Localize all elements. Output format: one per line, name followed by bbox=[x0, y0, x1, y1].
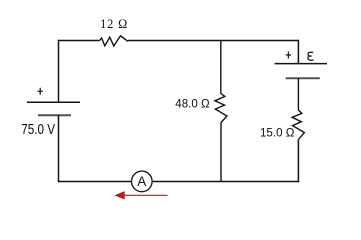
battery EMF positive plate bbox=[275, 63, 328, 65]
EMF epsilon label bbox=[308, 52, 314, 60]
svg-text:75.0 V: 75.0 V bbox=[21, 121, 55, 138]
battery 75.0 V positive plate bbox=[27, 101, 80, 103]
wire top-left segment bbox=[58, 40, 99, 42]
wire right vertical to battery bbox=[297, 40, 299, 64]
wire top-right segment bbox=[128, 40, 299, 42]
current direction arrow (red, pointing left) bbox=[115, 192, 167, 200]
wire bottom bbox=[58, 181, 299, 183]
wire middle branch lower bbox=[220, 123, 222, 182]
resistor 15.0 ohm (R3) zigzag bbox=[292, 110, 304, 139]
battery EMF negative plate bbox=[286, 77, 320, 79]
ammeter A (circle on bottom wire) bbox=[132, 171, 153, 192]
wire middle branch upper bbox=[220, 41, 222, 94]
wire left vertical upper bbox=[58, 40, 60, 102]
svg-text:15.0 Ω: 15.0 Ω bbox=[260, 125, 294, 139]
resistor 48.0 ohm (R2) zigzag bbox=[215, 93, 227, 122]
battery 75.0 V negative plate bbox=[38, 114, 71, 116]
wire right battery to 15 ohm resistor bbox=[297, 78, 299, 110]
wire left vertical lower bbox=[58, 115, 60, 182]
svg-text:12 Ω: 12 Ω bbox=[100, 17, 127, 31]
resistor 12 ohm (R1) zigzag bbox=[99, 36, 128, 46]
svg-text:48.0 Ω: 48.0 Ω bbox=[175, 97, 209, 111]
svg-text:A: A bbox=[137, 174, 146, 189]
wire right vertical lower bbox=[297, 139, 299, 182]
plus sign of EMF battery bbox=[286, 52, 291, 59]
plus sign of 75 V battery bbox=[38, 88, 43, 95]
